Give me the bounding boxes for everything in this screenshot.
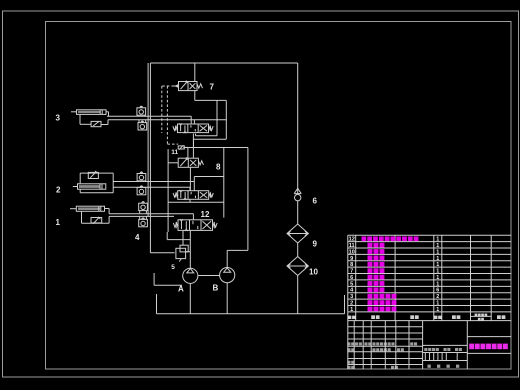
wire valve1 to valve 8 bbox=[192, 134, 194, 159]
svg-text:6: 6 bbox=[313, 197, 318, 206]
check valve 6 bbox=[294, 188, 301, 201]
wire tank line bbox=[157, 313, 345, 315]
title block left texts bbox=[347, 342, 417, 369]
svg-text:1: 1 bbox=[56, 218, 61, 227]
svg-text:3: 3 bbox=[350, 294, 353, 300]
svg-text:1: 1 bbox=[436, 269, 439, 275]
filter 10 bbox=[287, 257, 308, 276]
wire pump A to tank bbox=[189, 283, 191, 313]
svg-text:B: B bbox=[213, 284, 219, 293]
svg-text:7: 7 bbox=[350, 269, 353, 275]
wire valve 7 outlet bbox=[194, 91, 196, 101]
wire filter 10 to tank bbox=[297, 276, 299, 314]
svg-text:11: 11 bbox=[349, 243, 355, 249]
throttle check block cylinder 3 bbox=[91, 121, 101, 126]
svg-text:2: 2 bbox=[56, 186, 61, 195]
relief valve 7 bbox=[174, 81, 203, 91]
wire cylinder 3 upper bbox=[106, 111, 109, 113]
pump B bbox=[220, 268, 235, 283]
svg-text:1: 1 bbox=[436, 301, 439, 307]
wire cylinder 1 upper drop bbox=[192, 214, 194, 220]
svg-text:7: 7 bbox=[210, 83, 215, 92]
wire manifold right edge bbox=[247, 148, 249, 251]
cylinder 2 bbox=[73, 184, 106, 189]
wire to filter 5 bbox=[150, 252, 174, 254]
wire manifold left edge bbox=[167, 149, 169, 232]
wire filter 9 to filter 10 bbox=[297, 243, 299, 257]
wire pump pressure riser bbox=[297, 63, 299, 194]
valve 8 two position bbox=[168, 157, 203, 167]
wire throttle stub bbox=[184, 146, 188, 148]
svg-text:9: 9 bbox=[350, 256, 353, 262]
svg-text:5: 5 bbox=[350, 281, 353, 287]
wire top header bbox=[150, 62, 297, 64]
pump A bbox=[183, 268, 198, 283]
wire cylinder 1 lower bbox=[109, 215, 174, 217]
svg-text:5: 5 bbox=[171, 264, 175, 271]
svg-text:11: 11 bbox=[171, 149, 178, 156]
wire manifold inner riser bbox=[223, 148, 225, 218]
wire pump B to tank bbox=[226, 283, 228, 314]
wire pump A header bbox=[167, 239, 190, 241]
title block middle texts bbox=[424, 348, 462, 368]
parts table rows bbox=[349, 236, 440, 312]
wire cylinder 2 branch bbox=[194, 176, 224, 178]
svg-text:3: 3 bbox=[56, 114, 61, 123]
wire cylinder 3 lower bbox=[101, 124, 108, 126]
pilot check valve cylinder 3 lower bbox=[138, 120, 147, 130]
directional valve V2 cylinder 2 bbox=[173, 190, 213, 200]
svg-text:1: 1 bbox=[436, 249, 439, 255]
wire cylinder 3 loop bbox=[79, 115, 81, 125]
wire suction stub bbox=[153, 273, 155, 285]
throttle check block cylinder 2 bbox=[88, 171, 98, 179]
svg-text:1: 1 bbox=[436, 262, 439, 268]
svg-text:10: 10 bbox=[349, 249, 355, 255]
filter 9 bbox=[287, 224, 308, 243]
inner drawing frame bbox=[46, 22, 512, 370]
parts table grid bbox=[348, 235, 512, 320]
svg-text:9: 9 bbox=[313, 240, 318, 249]
svg-text:6: 6 bbox=[350, 275, 353, 281]
pilot line branch bbox=[166, 86, 168, 144]
wire tank stub right bbox=[344, 295, 346, 314]
svg-text:1: 1 bbox=[436, 275, 439, 281]
wire second riser bbox=[147, 63, 149, 216]
throttle check block cylinder 1 bbox=[91, 217, 102, 224]
svg-text:1: 1 bbox=[436, 243, 439, 249]
wire drain a to valve bbox=[196, 135, 218, 137]
svg-text:2: 2 bbox=[350, 301, 353, 307]
directional valve 12 cylinder 1 bbox=[173, 219, 217, 231]
svg-text:12: 12 bbox=[349, 237, 355, 243]
wire pump B outlet bbox=[226, 250, 228, 267]
wire manifold to pump B bbox=[227, 249, 248, 251]
wire manifold drain rail bbox=[168, 201, 224, 203]
cylinder 3 bbox=[71, 110, 106, 115]
svg-text:1: 1 bbox=[436, 307, 439, 313]
wire cylinder 1 loop bbox=[81, 211, 83, 223]
wire drain branch b bbox=[225, 100, 227, 139]
wire cylinder 2 upper bbox=[113, 181, 194, 183]
wire cylinder 2 lower bbox=[113, 186, 190, 188]
svg-text:10: 10 bbox=[309, 268, 318, 277]
filter 5 bbox=[176, 245, 190, 261]
svg-text:A: A bbox=[178, 285, 184, 294]
svg-text:12: 12 bbox=[201, 210, 210, 219]
wire cylinder 1 upper bbox=[104, 208, 109, 210]
throttle valve 11 bbox=[178, 145, 184, 149]
pilot check valve cylinder 2 upper bbox=[137, 172, 146, 182]
wire drain b lower bbox=[194, 138, 227, 140]
wire header to valve 7 bbox=[194, 63, 196, 82]
wire valve 12 to filter 5 bbox=[182, 230, 184, 245]
svg-text:6: 6 bbox=[436, 288, 439, 294]
wire manifold top edge bbox=[183, 147, 248, 149]
wire pump A inlet bbox=[189, 230, 191, 268]
pilot check valve cylinder 2 lower bbox=[137, 186, 146, 195]
directional valve V1 cylinder 3 bbox=[173, 123, 213, 133]
wire drain header bbox=[195, 99, 227, 101]
wire check 6 to filter 9 bbox=[297, 201, 299, 224]
svg-text:2: 2 bbox=[436, 294, 439, 300]
wire pump link bbox=[198, 275, 220, 277]
drawing title bbox=[469, 344, 474, 350]
parts table header bbox=[348, 314, 505, 321]
svg-text:1: 1 bbox=[436, 281, 439, 287]
wire drain branch a bbox=[216, 100, 218, 135]
pilot check valve cylinder 3 upper bbox=[137, 106, 146, 116]
title block grid bbox=[348, 321, 512, 369]
svg-text:1: 1 bbox=[350, 307, 353, 313]
pilot check valve cylinder 1 lower bbox=[139, 216, 148, 226]
pilot check valve cylinder 1 upper bbox=[139, 201, 148, 213]
svg-text:4: 4 bbox=[135, 233, 140, 242]
wire tank stub left bbox=[156, 294, 158, 314]
svg-text:8: 8 bbox=[216, 163, 221, 172]
svg-text:8: 8 bbox=[350, 262, 353, 268]
cylinder 1 bbox=[70, 206, 105, 211]
wire cylinder 2 loop bbox=[80, 172, 113, 174]
pilot line valve 7 bbox=[162, 85, 174, 87]
wire valve V2 bottom port bbox=[189, 199, 191, 202]
wire valve 8 drain bbox=[189, 167, 191, 190]
svg-text:1: 1 bbox=[436, 237, 439, 243]
wire left return riser bbox=[149, 63, 151, 253]
svg-text:1: 1 bbox=[436, 256, 439, 262]
